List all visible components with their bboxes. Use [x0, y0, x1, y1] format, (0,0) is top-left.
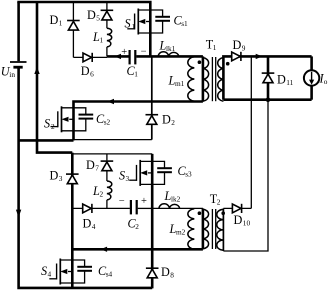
svg-text:5: 5: [96, 14, 100, 23]
svg-text:D: D: [277, 73, 286, 87]
svg-text:s3: s3: [185, 169, 192, 178]
svg-text:1: 1: [132, 22, 136, 31]
svg-text:lk2: lk2: [171, 195, 181, 204]
svg-text:D: D: [81, 64, 90, 78]
svg-text:1: 1: [134, 69, 138, 78]
svg-text:2: 2: [100, 189, 104, 198]
svg-text:7: 7: [95, 163, 99, 172]
svg-text:6: 6: [90, 69, 94, 78]
svg-text:11: 11: [286, 78, 293, 87]
svg-text:2: 2: [135, 222, 139, 231]
svg-text:S: S: [125, 17, 131, 31]
svg-text:in: in: [9, 70, 15, 79]
svg-text:o: o: [324, 77, 328, 86]
svg-text:−: −: [141, 47, 147, 58]
svg-text:S: S: [44, 117, 50, 131]
svg-text:1: 1: [59, 19, 63, 28]
svg-text:D: D: [83, 217, 92, 231]
svg-text:D: D: [50, 169, 59, 183]
svg-text:S: S: [119, 169, 125, 183]
svg-text:lk1: lk1: [166, 44, 176, 53]
svg-text:D: D: [161, 265, 170, 279]
svg-text:s4: s4: [106, 269, 113, 278]
svg-text:2: 2: [217, 198, 221, 207]
svg-text:s1: s1: [181, 19, 188, 28]
svg-text:D: D: [86, 158, 95, 172]
svg-text:m1: m1: [175, 79, 185, 88]
svg-text:1: 1: [100, 35, 104, 44]
svg-text:D: D: [50, 13, 59, 27]
svg-text:D: D: [234, 213, 243, 227]
svg-text:3: 3: [126, 174, 130, 183]
svg-text:4: 4: [48, 270, 52, 279]
svg-text:+: +: [141, 196, 147, 207]
svg-text:−: −: [119, 196, 125, 207]
svg-text:+: +: [121, 47, 127, 58]
svg-text:2: 2: [51, 122, 55, 131]
svg-text:10: 10: [243, 219, 251, 228]
svg-text:D: D: [87, 8, 96, 22]
svg-text:D: D: [233, 38, 242, 52]
svg-text:3: 3: [59, 174, 63, 183]
svg-text:8: 8: [170, 271, 174, 280]
svg-text:s2: s2: [104, 117, 111, 126]
svg-text:m2: m2: [176, 228, 186, 237]
svg-text:4: 4: [92, 222, 96, 231]
svg-text:1: 1: [213, 43, 217, 52]
svg-text:2: 2: [171, 118, 175, 127]
svg-text:D: D: [162, 113, 171, 127]
svg-text:9: 9: [242, 43, 246, 52]
svg-text:S: S: [41, 264, 47, 278]
